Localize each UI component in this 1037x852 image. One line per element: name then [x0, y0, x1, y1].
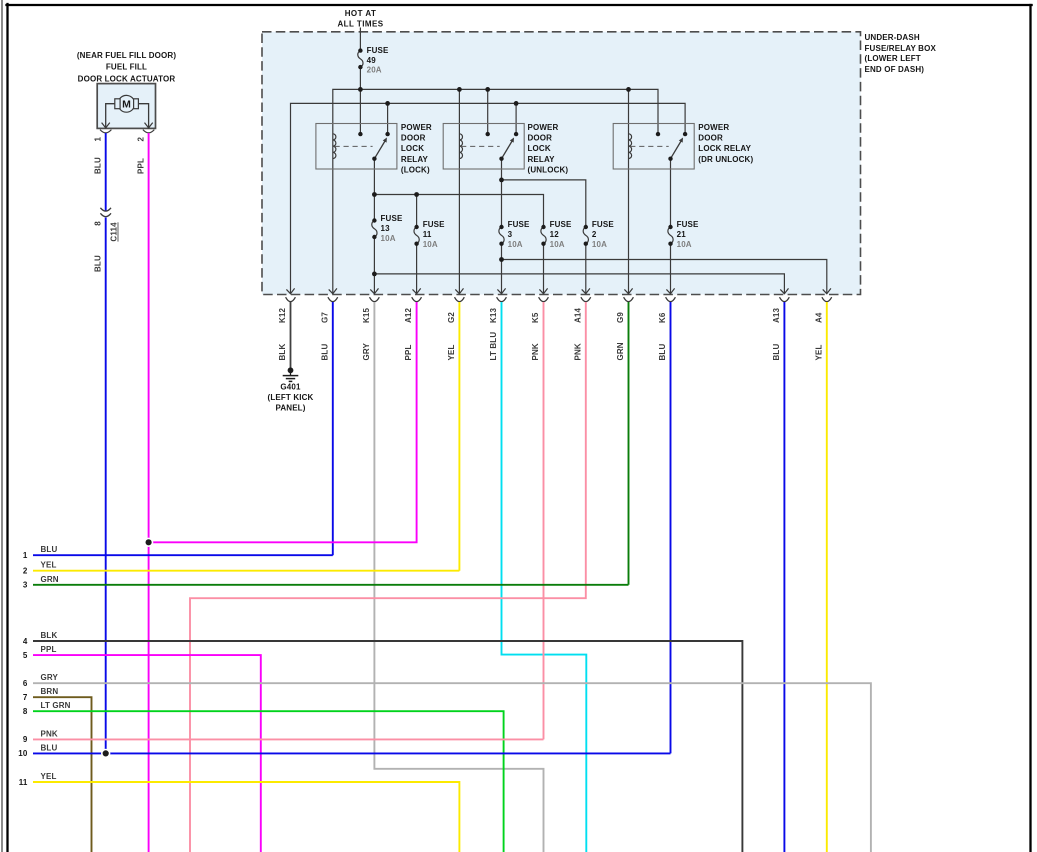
svg-text:10A: 10A	[423, 240, 438, 249]
wire 3: GRN horizontal to G9 column	[33, 584, 629, 586]
exit arrow G9	[624, 288, 632, 293]
svg-text:13: 13	[381, 224, 391, 233]
exit arrow A12	[413, 288, 421, 293]
svg-text:FUSE: FUSE	[423, 220, 445, 229]
svg-text:K13: K13	[489, 307, 498, 323]
component: FUEL FILL DOOR LOCK ACTUATOR	[77, 51, 176, 142]
svg-text:BLU: BLU	[93, 255, 102, 272]
svg-text:RELAY: RELAY	[528, 155, 556, 164]
svg-text:1: 1	[23, 551, 28, 560]
relay1 switch arm	[374, 141, 385, 159]
relay: POWER DOOR LOCK RELAY (UNLOCK)	[443, 123, 568, 174]
fuse F49 (FUSE 49 20A)	[358, 46, 389, 74]
svg-text:BLU: BLU	[772, 344, 781, 361]
svg-text:10A: 10A	[550, 240, 565, 249]
svg-text:7: 7	[23, 693, 28, 702]
svg-text:FUSE/RELAY BOX: FUSE/RELAY BOX	[865, 44, 937, 53]
wire: battery feed into fuse 49	[359, 28, 361, 51]
wire: bus1 horizontal (fuse 49 output)	[333, 89, 658, 294]
svg-text:RELAY: RELAY	[401, 155, 429, 164]
wire: fuse 49 to bus1 and relay1 NC contact	[359, 67, 361, 134]
wire: fuse 11 column / A12 exit	[416, 195, 418, 228]
svg-text:(NEAR FUEL FILL DOOR): (NEAR FUEL FILL DOOR)	[77, 51, 176, 60]
wire: YEL from G2 down to wire 2	[458, 302, 460, 571]
relay3 coil	[629, 134, 632, 159]
svg-text:BLU: BLU	[93, 157, 102, 174]
svg-text:8: 8	[23, 707, 28, 716]
svg-text:ALL TIMES: ALL TIMES	[337, 20, 383, 29]
exit arrow K15	[370, 288, 378, 293]
fuse F2 (FUSE 2 10A)	[583, 220, 614, 249]
wire: PNK from A14 down, left, down to page bottom	[190, 302, 586, 852]
wire: BLK from K12 to ground G401	[290, 302, 292, 368]
svg-text:12: 12	[550, 230, 560, 239]
node: BLU junction on wire 10	[102, 750, 110, 758]
svg-text:11: 11	[19, 778, 28, 787]
relay1 NO contact	[385, 132, 389, 136]
node: bus2/relay2 NO junction	[514, 101, 519, 106]
svg-text:K12: K12	[278, 307, 287, 323]
svg-text:PPL: PPL	[41, 645, 57, 654]
wire 2: YEL horizontal to G2 column	[33, 570, 459, 572]
node: rail1/fuse11 junction	[414, 192, 419, 197]
node: fuse13/A13 rail junction	[372, 272, 377, 277]
svg-text:BRN: BRN	[41, 687, 59, 696]
wire: BLU from K6 down to wire 10	[670, 302, 672, 753]
relay2 coil	[459, 134, 462, 159]
pin 1 arrow	[102, 123, 110, 128]
page border top line	[7, 4, 1032, 6]
svg-text:LOCK: LOCK	[528, 144, 551, 153]
node: fuse3/A4 rail junction	[499, 257, 504, 262]
cup K5	[539, 297, 549, 302]
wire: fuse 13 lower column / K15 exit	[373, 237, 375, 294]
svg-text:FUSE: FUSE	[592, 220, 614, 229]
svg-text:3: 3	[23, 581, 28, 590]
svg-text:PNK: PNK	[531, 343, 540, 360]
svg-text:DOOR: DOOR	[698, 134, 723, 143]
node: bus1/relay2 coil junction	[457, 87, 462, 92]
wire: relay2 NO terminal drop	[515, 103, 517, 134]
fuse F13 (FUSE 13 10A)	[372, 214, 403, 243]
cup G2	[455, 297, 465, 302]
relay1 coil	[333, 134, 336, 159]
svg-text:POWER: POWER	[698, 123, 729, 132]
relay3 pivot	[668, 157, 672, 161]
svg-text:10: 10	[18, 749, 28, 758]
exit arrow A4	[823, 288, 831, 293]
wire 10: BLU horizontal to K6 column	[33, 752, 671, 754]
svg-text:PPL: PPL	[404, 344, 413, 360]
wire: PPL from actuator pin 2 down to page bottom	[148, 133, 150, 852]
node: bus1/fuse49 junction	[358, 87, 363, 92]
svg-text:49: 49	[367, 56, 377, 65]
svg-text:3: 3	[508, 230, 513, 239]
pin 2 connector cup	[143, 130, 154, 133]
motor M1 brushes	[115, 99, 120, 109]
motor M1 leads	[106, 104, 116, 128]
wire: YEL from A4 down to page bottom	[826, 302, 828, 852]
page border outer thin line	[1, 0, 3, 852]
node: PPL junction	[145, 538, 153, 546]
svg-text:4: 4	[23, 637, 28, 646]
relay2 pivot	[499, 157, 503, 161]
wire: GRN from G9 down to wire 3	[628, 302, 630, 585]
svg-text:BLK: BLK	[278, 344, 287, 361]
connector C114	[93, 208, 118, 242]
svg-text:G401: G401	[280, 382, 301, 391]
wire: fuse rail1 (lock relay output)	[374, 195, 543, 228]
svg-text:G9: G9	[616, 312, 625, 323]
actuator box	[97, 84, 155, 129]
wire: relay1 pivot to fuse rail1	[373, 159, 375, 221]
svg-text:YEL: YEL	[41, 561, 57, 570]
node: bus2/relay1 NO junction	[385, 101, 390, 106]
cup A12	[412, 297, 422, 302]
svg-text:2: 2	[137, 137, 146, 142]
ground G401 symbol	[283, 367, 299, 381]
fuse box exit arrows at dashed border	[286, 288, 831, 293]
pin labels at fuse box exits (rotated)	[278, 307, 823, 323]
svg-text:10A: 10A	[677, 240, 692, 249]
wire: LT BLU from K13 down, right, down to page bottom	[502, 302, 587, 852]
node: bus1/relay2 NC junction	[485, 87, 490, 92]
svg-text:6: 6	[23, 679, 28, 688]
svg-text:FUSE: FUSE	[550, 220, 572, 229]
svg-text:K6: K6	[658, 312, 667, 323]
svg-text:K15: K15	[362, 307, 371, 323]
svg-text:FUSE: FUSE	[677, 220, 699, 229]
svg-text:10A: 10A	[508, 240, 523, 249]
wire: rail to A13 exit	[374, 274, 784, 294]
wire: BLU below C114 down to wire 10 junction	[105, 218, 107, 754]
junction dots in fuse box	[358, 87, 631, 276]
svg-text:BLU: BLU	[658, 344, 667, 361]
wire: BLU from G7 down to wire 1	[332, 302, 334, 555]
relay: POWER DOOR LOCK RELAY (LOCK)	[316, 123, 432, 174]
node: bus1/relay3 coil junction	[626, 87, 631, 92]
wire: PNK from K5 down to wire 9	[543, 302, 545, 739]
fuse F11 (FUSE 11 10A)	[414, 220, 445, 249]
relay2 NO contact	[514, 132, 518, 136]
pin 2 arrow	[145, 123, 153, 128]
relay2 mechanical link (dashed)	[461, 145, 500, 147]
svg-text:DOOR LOCK ACTUATOR: DOOR LOCK ACTUATOR	[78, 75, 176, 84]
wire colour labels left	[41, 545, 71, 781]
svg-text:(LOCK): (LOCK)	[401, 165, 430, 174]
page border right line	[1029, 5, 1031, 852]
wire 8: LT GRN horizontal then down to page bottom	[33, 711, 504, 852]
svg-text:GRN: GRN	[41, 575, 59, 584]
svg-text:FUSE: FUSE	[367, 46, 389, 55]
relay: POWER DOOR LOCK RELAY (DR UNLOCK)	[613, 123, 753, 169]
fuse F3 (FUSE 3 10A)	[499, 220, 530, 249]
relay3 mechanical link (dashed)	[630, 145, 669, 147]
exit arrow K12	[286, 288, 294, 293]
node: rail2/fuse3 junction	[499, 178, 504, 183]
svg-text:A13: A13	[772, 307, 781, 323]
relay2 NC contact	[486, 132, 490, 136]
svg-text:DOOR: DOOR	[528, 134, 553, 143]
svg-text:10A: 10A	[381, 234, 396, 243]
svg-text:YEL: YEL	[814, 344, 823, 360]
wire: BLU from A13 down to page bottom	[783, 302, 785, 852]
exit arrow K6	[666, 288, 674, 293]
svg-text:2: 2	[592, 230, 597, 239]
relay1 NC contact	[358, 132, 362, 136]
wire: rail to A4 exit	[502, 260, 827, 295]
cup G7	[328, 297, 338, 302]
svg-text:2: 2	[23, 567, 28, 576]
wire 6: GRY horizontal then down to page bottom	[33, 683, 871, 852]
exit arrow K13	[497, 288, 505, 293]
exit arrow G7	[329, 288, 337, 293]
svg-text:(LEFT KICK: (LEFT KICK	[268, 393, 314, 402]
exit arrow A13	[780, 288, 788, 293]
wire 5: PPL horizontal then down to page bottom	[33, 655, 261, 852]
svg-text:G7: G7	[320, 312, 329, 323]
cup K15	[370, 297, 380, 302]
svg-text:C114: C114	[110, 222, 119, 242]
cup A4	[822, 297, 832, 302]
svg-text:(DR UNLOCK): (DR UNLOCK)	[698, 155, 753, 164]
cup G9	[624, 297, 634, 302]
pin 1 connector cup	[100, 130, 111, 133]
svg-text:BLU: BLU	[41, 545, 58, 554]
svg-text:BLK: BLK	[41, 631, 58, 640]
svg-text:A12: A12	[404, 307, 413, 323]
page border left thick line	[6, 4, 8, 852]
fuse box exit connector cups	[286, 297, 832, 302]
cup K13	[497, 297, 507, 302]
cup K12	[286, 297, 296, 302]
svg-text:10A: 10A	[592, 240, 607, 249]
svg-text:21: 21	[677, 230, 687, 239]
wire 7: BRN horizontal then down to page bottom	[33, 697, 92, 852]
relay3 NC contact	[656, 132, 660, 136]
motor M1 circle	[118, 95, 135, 112]
svg-text:11: 11	[423, 230, 432, 239]
wire: fuse 12 lower column / K5 exit	[543, 244, 545, 294]
svg-text:GRN: GRN	[616, 342, 625, 360]
svg-text:9: 9	[23, 735, 28, 744]
svg-text:LOCK: LOCK	[401, 144, 424, 153]
wire 4: BLK horizontal then down to page bottom	[33, 641, 742, 852]
svg-text:PNK: PNK	[41, 729, 58, 738]
wire: relay2 pivot to fuse rail2	[501, 159, 503, 227]
svg-text:LT GRN: LT GRN	[41, 701, 71, 710]
svg-text:GRY: GRY	[41, 673, 59, 682]
wire: fuse rail2 (unlock relay output)	[502, 180, 586, 227]
cup A13	[780, 297, 790, 302]
svg-text:5: 5	[23, 651, 28, 660]
exit arrow K5	[539, 288, 547, 293]
relay2 switch arm	[502, 141, 513, 159]
wire number labels	[18, 551, 28, 787]
svg-text:20A: 20A	[367, 65, 382, 74]
svg-text:PPL: PPL	[136, 158, 145, 174]
wire: relay2 NC contact drop	[487, 89, 489, 134]
svg-text:POWER: POWER	[528, 123, 559, 132]
svg-text:A14: A14	[573, 307, 582, 323]
svg-text:G2: G2	[447, 312, 456, 323]
svg-text:END OF DASH): END OF DASH)	[865, 65, 925, 74]
svg-text:A4: A4	[814, 312, 823, 323]
cup A14	[581, 297, 591, 302]
svg-text:FUSE: FUSE	[508, 220, 530, 229]
fuse F12 (FUSE 12 10A)	[541, 220, 572, 249]
under-dash fuse/relay box (dashed boundary, blue fill)	[262, 32, 861, 295]
wire: fuse 2 lower column / A14 exit	[585, 244, 587, 294]
fuse F21 (FUSE 21 10A)	[668, 220, 699, 249]
wire colour labels at fuse box exits (rotated)	[278, 332, 823, 361]
svg-text:PNK: PNK	[573, 343, 582, 360]
svg-text:FUSE: FUSE	[381, 214, 403, 223]
svg-text:M: M	[122, 98, 131, 110]
relay1 mechanical link (dashed)	[335, 145, 373, 147]
svg-text:GRY: GRY	[362, 342, 371, 360]
cup K6	[666, 297, 676, 302]
svg-text:FUEL FILL: FUEL FILL	[106, 63, 147, 72]
wire 9: PNK horizontal to K5 column	[33, 738, 544, 740]
wire 1: BLU horizontal to G7 column	[33, 554, 333, 556]
relay3 switch arm	[671, 141, 682, 159]
wire: relay3 pivot to fuse 21 / K6 exit	[670, 159, 672, 227]
wire: GRY from K15 down, right, down to page bottom	[374, 302, 543, 852]
wire: relay1 NO terminal drop	[387, 103, 389, 134]
svg-text:DOOR: DOOR	[401, 134, 426, 143]
svg-text:BLU: BLU	[320, 344, 329, 361]
svg-text:1: 1	[94, 137, 103, 142]
exit arrow G2	[455, 288, 463, 293]
exit arrow A14	[582, 288, 590, 293]
svg-text:LOCK RELAY: LOCK RELAY	[698, 144, 751, 153]
relay3 NO contact	[683, 132, 687, 136]
wire: BLU from actuator pin 1	[105, 133, 107, 211]
wire: relay2 coil feed / G2 column	[458, 89, 460, 294]
wire: bus2 horizontal (switched feed)	[291, 103, 686, 294]
svg-text:YEL: YEL	[447, 344, 456, 360]
svg-text:HOT AT: HOT AT	[345, 9, 377, 18]
relay1 pivot	[372, 157, 376, 161]
svg-text:(LOWER LEFT: (LOWER LEFT	[865, 54, 921, 63]
svg-text:BLU: BLU	[41, 743, 58, 752]
wire: PPL from A12 down then left to junction on actuator PPL	[149, 302, 417, 542]
svg-text:YEL: YEL	[41, 772, 57, 781]
wire: relay3 coil feed / G9 column	[628, 89, 630, 294]
svg-text:UNDER-DASH: UNDER-DASH	[865, 33, 920, 42]
wire: fuse 3 lower column / K13 exit	[501, 244, 503, 294]
svg-text:PANEL): PANEL)	[275, 404, 305, 413]
svg-text:8: 8	[93, 221, 102, 226]
svg-text:LT BLU: LT BLU	[489, 332, 498, 361]
svg-text:(UNLOCK): (UNLOCK)	[528, 165, 569, 174]
svg-text:POWER: POWER	[401, 123, 432, 132]
svg-text:K5: K5	[531, 312, 540, 323]
wire 11: YEL horizontal then down to page bottom	[33, 782, 459, 852]
node: rail1/fuse13 junction	[372, 192, 377, 197]
